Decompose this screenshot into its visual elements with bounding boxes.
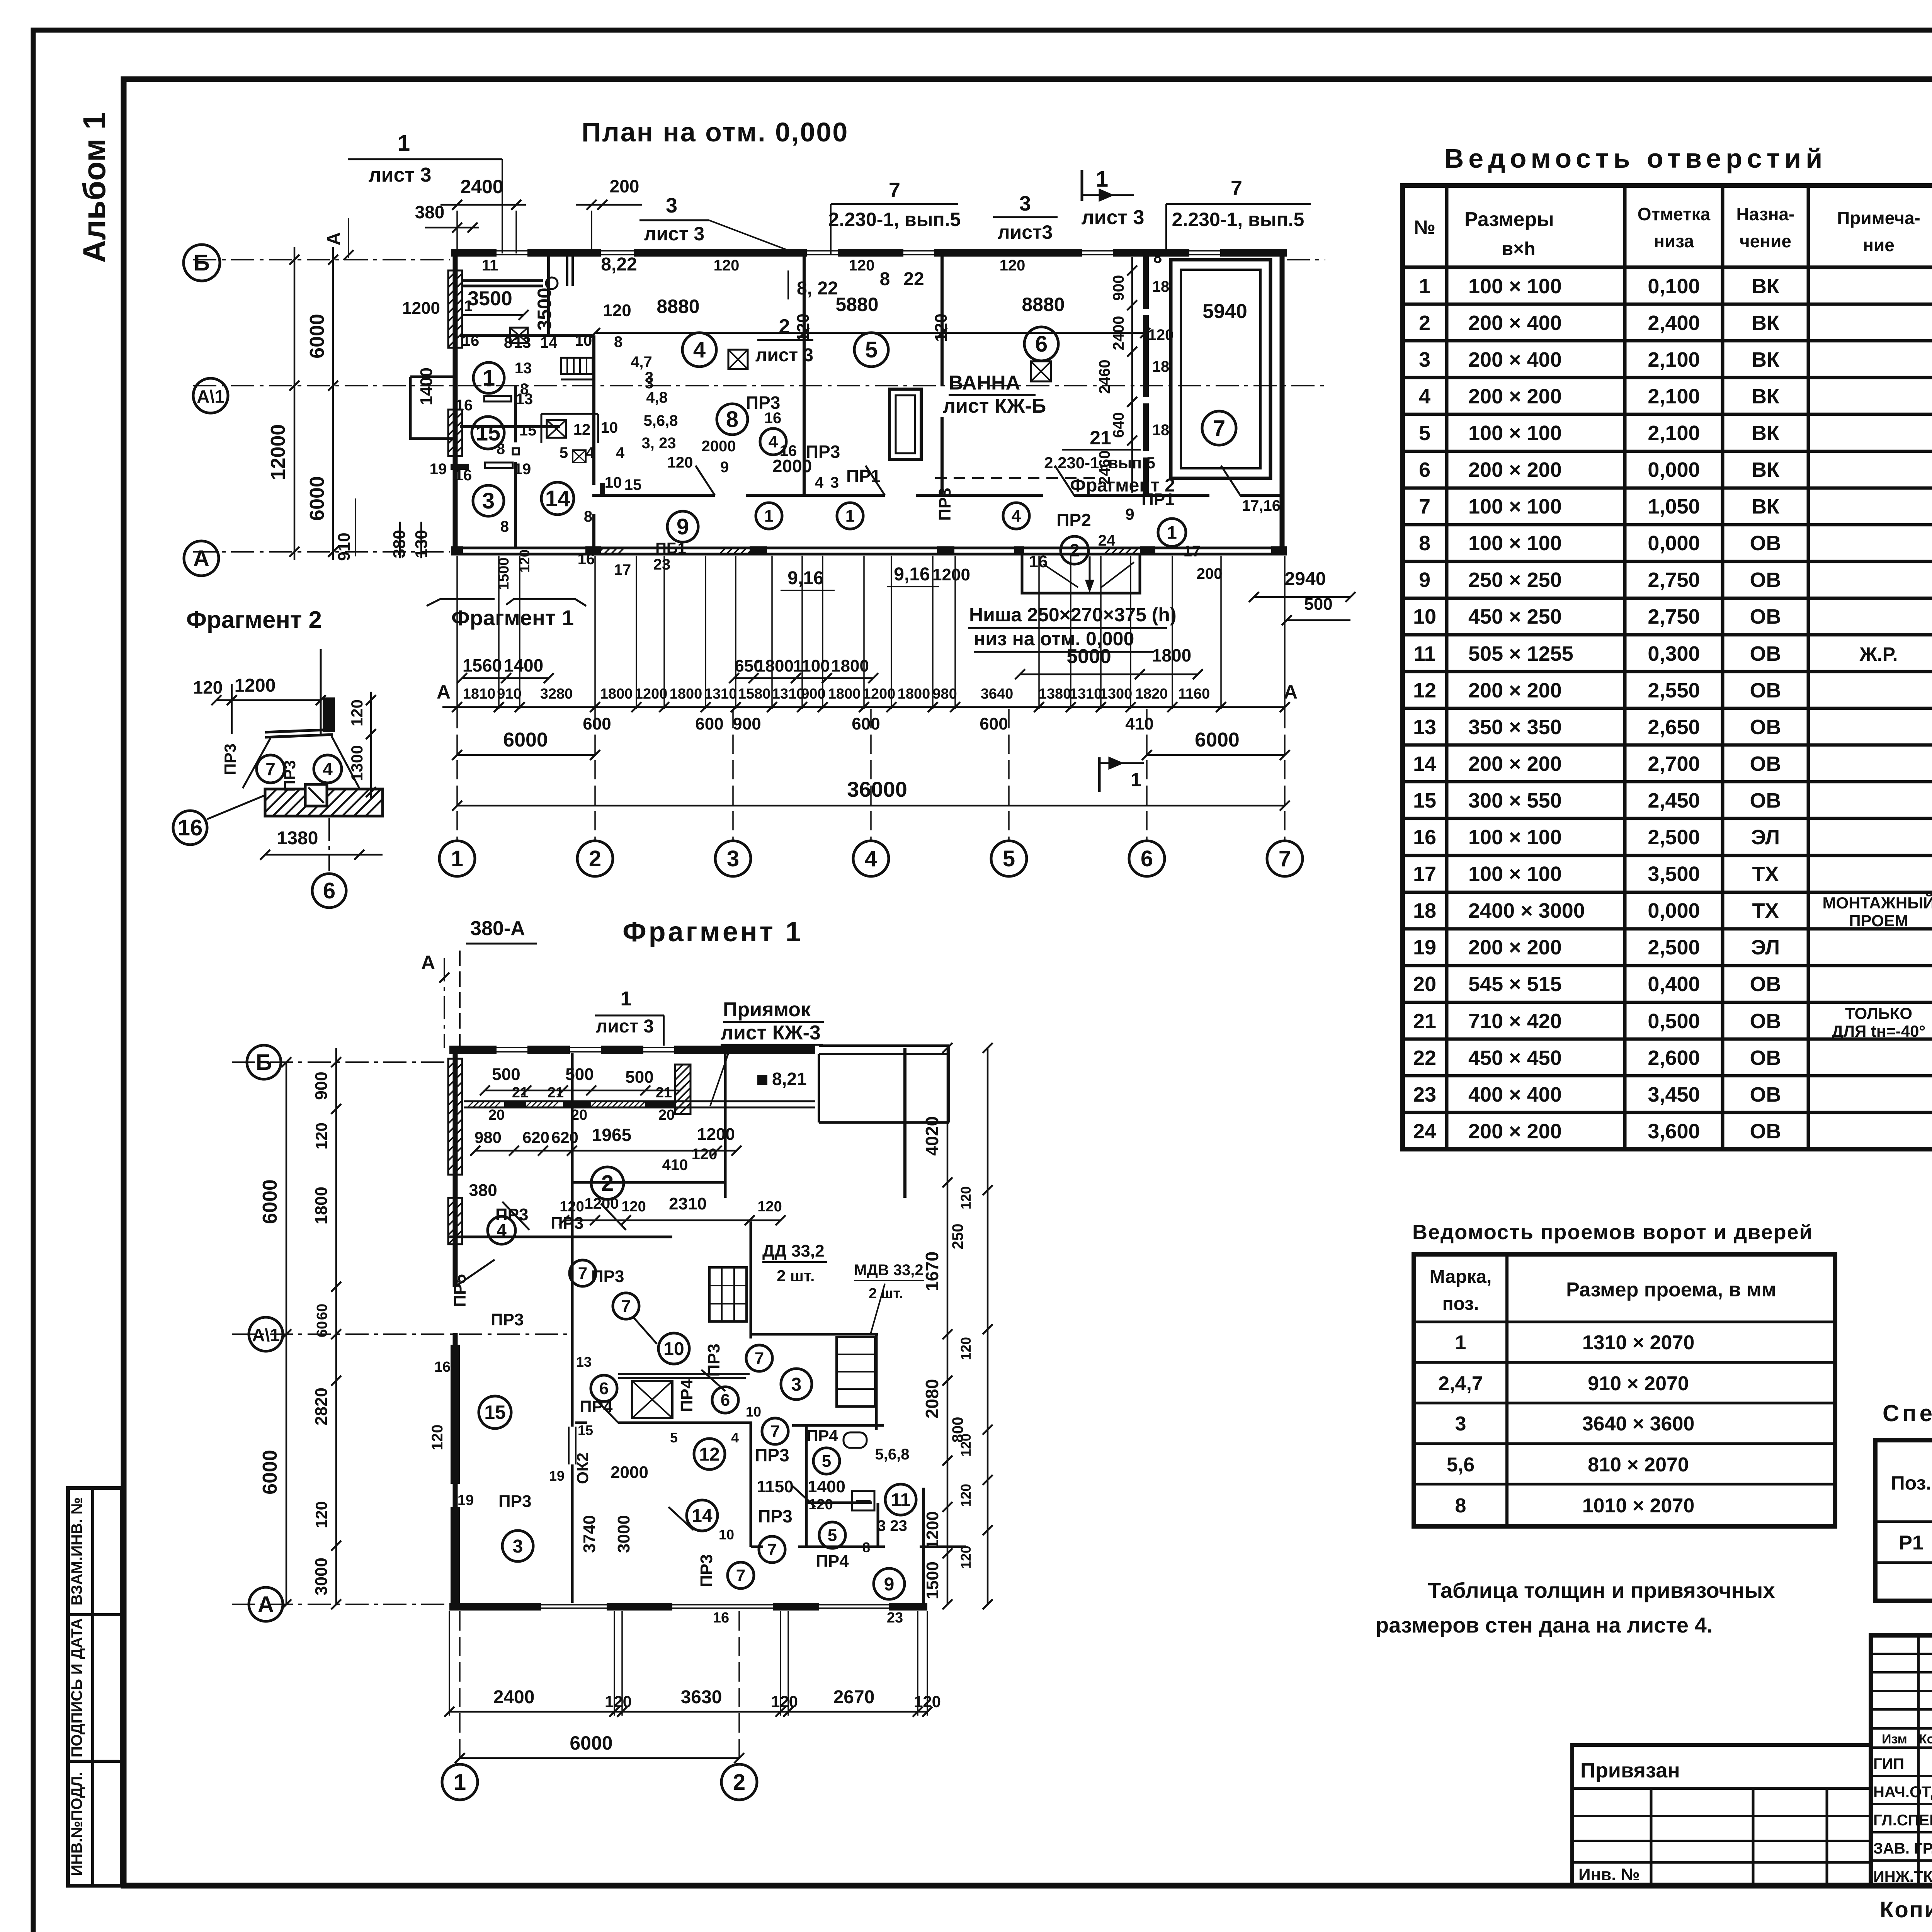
svg-text:410: 410 — [662, 1156, 688, 1173]
svg-text:ТХ: ТХ — [1752, 899, 1779, 922]
svg-text:1800: 1800 — [312, 1187, 331, 1225]
overall 36000 dim row — [457, 805, 1285, 807]
room 14 circle — [541, 482, 574, 515]
svg-text:5880: 5880 — [835, 294, 878, 315]
svg-text:1: 1 — [454, 1770, 466, 1795]
entry porch left — [410, 377, 455, 439]
svg-text:3740: 3740 — [580, 1515, 599, 1553]
svg-text:100 × 100: 100 × 100 — [1468, 826, 1562, 849]
svg-text:ОВ: ОВ — [1750, 1083, 1781, 1106]
svg-text:ВАННА: ВАННА — [949, 372, 1020, 394]
svg-text:6000: 6000 — [570, 1732, 612, 1754]
svg-text:1150: 1150 — [757, 1477, 793, 1496]
frag1 room circles cluster — [488, 1216, 515, 1244]
svg-text:1200: 1200 — [863, 686, 896, 702]
svg-text:ИНВ.№ПОДЛ.: ИНВ.№ПОДЛ. — [68, 1772, 85, 1876]
svg-text:120: 120 — [621, 1199, 646, 1215]
svg-text:120: 120 — [692, 1146, 718, 1163]
small room circle 2b — [1061, 536, 1088, 564]
svg-text:Ж.Р.: Ж.Р. — [1859, 643, 1898, 665]
svg-text:640: 640 — [1110, 412, 1127, 438]
svg-text:17: 17 — [1413, 862, 1436, 886]
svg-text:1: 1 — [451, 846, 463, 871]
svg-text:15: 15 — [578, 1422, 593, 1438]
svg-text:14: 14 — [540, 334, 558, 351]
frag1 pier 8,21 — [757, 1075, 767, 1085]
frag1 left axis circles — [232, 1061, 449, 1063]
left zone partition v1 — [547, 255, 550, 335]
svg-text:500: 500 — [625, 1068, 653, 1087]
bottom wall piers — [451, 546, 463, 555]
svg-text:120: 120 — [667, 454, 693, 471]
svg-text:9: 9 — [677, 514, 689, 539]
svg-text:11: 11 — [482, 257, 498, 274]
small room circle 4c — [1003, 503, 1029, 529]
svg-text:1: 1 — [845, 507, 855, 526]
svg-text:ние: ние — [1863, 235, 1895, 255]
svg-text:3640: 3640 — [981, 686, 1014, 702]
svg-text:размеров стен дана на листе 4.: размеров стен дана на листе 4. — [1376, 1613, 1713, 1637]
svg-text:8880: 8880 — [1022, 294, 1065, 315]
svg-text:ПР2: ПР2 — [1056, 510, 1091, 530]
svg-text:2,750: 2,750 — [1648, 605, 1700, 628]
svg-text:14: 14 — [1413, 752, 1436, 776]
svg-text:А: А — [258, 1592, 274, 1617]
svg-text:8: 8 — [880, 269, 890, 289]
frag1 top dims 500s — [485, 1090, 680, 1092]
svg-text:23: 23 — [1413, 1083, 1436, 1106]
svg-text:Ведомость отверстий: Ведомость отверстий — [1444, 143, 1827, 173]
svg-text:3: 3 — [1455, 1413, 1466, 1435]
svg-text:15: 15 — [624, 476, 642, 493]
frag1 wall left vertical with OK2 window — [571, 1237, 574, 1427]
svg-text:2: 2 — [779, 315, 790, 338]
svg-text:ПР3: ПР3 — [221, 743, 239, 775]
svg-text:10: 10 — [575, 332, 592, 349]
svg-text:2,500: 2,500 — [1648, 826, 1700, 849]
svg-text:А: А — [1284, 681, 1298, 703]
svg-text:7: 7 — [755, 1349, 764, 1368]
left margin stamp boxes — [68, 1488, 122, 1886]
svg-text:350 × 350: 350 × 350 — [1468, 716, 1562, 739]
vent wall stub 11 — [462, 279, 543, 282]
svg-text:900: 900 — [1110, 275, 1127, 301]
svg-text:5,6,8: 5,6,8 — [644, 412, 678, 429]
svg-text:13: 13 — [514, 334, 531, 351]
room 9 circle — [667, 511, 698, 542]
frag2 wall corner — [265, 730, 333, 732]
svg-text:3640 × 3600: 3640 × 3600 — [1582, 1413, 1695, 1435]
partition room6|7 wall band — [1143, 257, 1149, 496]
svg-text:0,000: 0,000 — [1648, 458, 1700, 481]
axis circle A1 left — [193, 378, 228, 413]
svg-text:8: 8 — [504, 334, 512, 351]
room 7 circle — [1202, 411, 1236, 445]
svg-text:6000: 6000 — [306, 314, 328, 359]
svg-text:13: 13 — [515, 360, 532, 377]
svg-text:15: 15 — [1413, 789, 1436, 812]
svg-text:лист 3: лист 3 — [644, 223, 705, 245]
svg-text:ПРОЕМ: ПРОЕМ — [1849, 912, 1908, 930]
svg-text:1800: 1800 — [670, 686, 702, 702]
svg-text:1: 1 — [1455, 1332, 1466, 1354]
svg-text:600: 600 — [695, 714, 723, 733]
svg-text:10: 10 — [1413, 605, 1436, 628]
svg-text:100 × 100: 100 × 100 — [1468, 862, 1562, 886]
svg-text:7: 7 — [889, 179, 900, 202]
svg-text:ТОЛЬКО: ТОЛЬКО — [1845, 1004, 1912, 1022]
svg-text:500: 500 — [1304, 595, 1332, 614]
svg-text:120: 120 — [932, 313, 951, 342]
svg-text:1810: 1810 — [463, 686, 496, 702]
svg-text:ПР3: ПР3 — [935, 488, 954, 520]
svg-text:3,500: 3,500 — [1648, 862, 1700, 886]
frag1 door leaves — [502, 1202, 529, 1230]
svg-text:120: 120 — [808, 1497, 833, 1513]
svg-text:Фрагмент 1: Фрагмент 1 — [451, 605, 574, 630]
svg-text:6: 6 — [1419, 458, 1430, 481]
svg-text:200 × 200: 200 × 200 — [1468, 752, 1562, 776]
small x symbol — [573, 450, 586, 463]
svg-text:810 × 2070: 810 × 2070 — [1588, 1454, 1689, 1476]
svg-text:10: 10 — [719, 1527, 734, 1543]
svg-text:ВК: ВК — [1752, 385, 1780, 408]
stair comb — [561, 358, 593, 374]
svg-text:500: 500 — [492, 1065, 520, 1084]
vedomost proyomov grid — [1414, 1254, 1835, 1526]
svg-text:9: 9 — [1419, 568, 1430, 592]
svg-text:22: 22 — [1413, 1046, 1436, 1070]
svg-text:Примеча-: Примеча- — [1837, 208, 1920, 228]
svg-text:14: 14 — [692, 1506, 713, 1526]
svg-text:2 шт.: 2 шт. — [777, 1267, 815, 1285]
grid leader lines to circles — [456, 709, 458, 842]
grid circle 1 — [439, 841, 475, 876]
svg-text:10: 10 — [663, 1339, 684, 1359]
svg-text:450 × 450: 450 × 450 — [1468, 1046, 1562, 1070]
svg-text:ПР3: ПР3 — [281, 760, 299, 792]
svg-text:24: 24 — [1098, 532, 1116, 549]
svg-text:3 23: 3 23 — [877, 1517, 907, 1534]
svg-text:2,4,7: 2,4,7 — [1438, 1372, 1483, 1395]
svg-text:2000: 2000 — [611, 1463, 648, 1482]
frag1 interior partitions — [571, 1053, 574, 1237]
svg-text:ГИП: ГИП — [1873, 1755, 1904, 1772]
svg-text:2460: 2460 — [1096, 360, 1113, 394]
svg-text:8: 8 — [500, 518, 509, 535]
svg-text:Б: Б — [256, 1050, 272, 1075]
svg-text:4: 4 — [731, 1430, 739, 1446]
svg-text:Фрагмент 2: Фрагмент 2 — [1070, 475, 1175, 496]
svg-text:ПР1: ПР1 — [846, 466, 881, 486]
svg-text:1500: 1500 — [496, 558, 512, 590]
svg-text:120: 120 — [193, 677, 223, 697]
svg-text:16: 16 — [578, 551, 595, 568]
svg-text:250 × 250: 250 × 250 — [1468, 568, 1562, 592]
svg-text:8: 8 — [584, 508, 592, 525]
svg-text:2,400: 2,400 — [1648, 311, 1700, 335]
svg-text:3, 23: 3, 23 — [642, 435, 676, 452]
svg-text:ОВ: ОВ — [1750, 568, 1781, 592]
vedomost otverstiy table grid — [1403, 185, 1932, 1149]
svg-text:100 × 100: 100 × 100 — [1468, 275, 1562, 298]
dim row 5000 1800 — [1020, 673, 1198, 675]
bottom wall sill hatches — [719, 547, 761, 555]
frag1 right dim line outer — [987, 1048, 989, 1604]
svg-text:Таблица толщин и привязочных: Таблица толщин и привязочных — [1428, 1578, 1775, 1602]
left vertical dim line 12000 — [294, 247, 296, 560]
svg-text:8,21: 8,21 — [772, 1069, 807, 1089]
svg-text:Поз.: Поз. — [1891, 1472, 1932, 1494]
svg-text:2: 2 — [1419, 311, 1430, 335]
frag1 grid circle 1 — [459, 1611, 461, 1762]
svg-text:36000: 36000 — [847, 777, 907, 801]
svg-text:Фрагмент 1: Фрагмент 1 — [622, 917, 803, 947]
svg-text:18: 18 — [1152, 278, 1170, 295]
pier stub room15|3 — [451, 464, 469, 470]
svg-text:4: 4 — [1419, 385, 1430, 408]
svg-text:ОВ: ОВ — [1750, 1046, 1781, 1070]
main plan bottom wall — [451, 547, 1287, 549]
svg-text:Изм: Изм — [1882, 1732, 1907, 1747]
svg-text:5: 5 — [560, 444, 568, 461]
svg-text:7: 7 — [770, 1422, 780, 1441]
svg-text:120: 120 — [603, 301, 631, 320]
svg-text:380-А: 380-А — [470, 917, 525, 940]
dim 2940 500 right — [1254, 596, 1350, 598]
svg-text:4: 4 — [323, 759, 333, 779]
svg-text:ПБ1: ПБ1 — [655, 540, 686, 557]
svg-text:120: 120 — [958, 1186, 974, 1209]
witness lines below bottom wall — [456, 556, 458, 709]
svg-text:1560: 1560 — [463, 655, 502, 675]
svg-text:Размер проема, в мм: Размер проема, в мм — [1566, 1279, 1776, 1301]
svg-text:18: 18 — [1152, 358, 1170, 375]
svg-text:5,6: 5,6 — [1447, 1454, 1475, 1476]
svg-text:250: 250 — [949, 1224, 966, 1250]
svg-text:А: А — [193, 546, 209, 571]
svg-text:21: 21 — [1413, 1010, 1436, 1033]
svg-text:120: 120 — [958, 1546, 974, 1569]
frag2 leader 16 — [173, 811, 207, 845]
svg-text:12: 12 — [1413, 679, 1436, 702]
svg-text:7: 7 — [1231, 177, 1242, 200]
frag1 right partial walls — [903, 1048, 906, 1198]
svg-text:1300: 1300 — [348, 745, 366, 781]
pier below top wall — [566, 255, 568, 286]
svg-text:200 × 200: 200 × 200 — [1468, 679, 1562, 702]
svg-text:1800: 1800 — [831, 656, 869, 675]
svg-text:ОВ: ОВ — [1750, 752, 1781, 776]
svg-text:1400: 1400 — [808, 1477, 845, 1496]
svg-text:400 × 400: 400 × 400 — [1468, 1083, 1562, 1106]
svg-text:7: 7 — [1279, 846, 1291, 871]
svg-text:410: 410 — [1125, 714, 1153, 733]
svg-text:ОВ: ОВ — [1750, 716, 1781, 739]
svg-text:900: 900 — [312, 1071, 331, 1100]
frag1 equip x-box — [632, 1381, 672, 1418]
frag1 priyamok pit outline — [819, 1044, 949, 1047]
svg-text:ПР3: ПР3 — [758, 1506, 792, 1526]
room 3 circle — [473, 485, 504, 516]
svg-text:ПР3: ПР3 — [591, 1267, 624, 1286]
bath vanna — [889, 389, 921, 459]
svg-text:МДВ 33,2: МДВ 33,2 — [854, 1262, 923, 1279]
svg-text:ПР4: ПР4 — [580, 1397, 613, 1416]
svg-text:910: 910 — [497, 686, 521, 702]
svg-text:План на отм. 0,000: План на отм. 0,000 — [582, 117, 849, 147]
svg-text:Приямок: Приямок — [723, 998, 811, 1021]
svg-text:1: 1 — [398, 131, 410, 156]
entrance recess PR2 — [1022, 555, 1140, 593]
grid circle 6 — [1129, 841, 1165, 876]
frag2 door leaves — [243, 738, 270, 788]
svg-text:4,8: 4,8 — [646, 389, 668, 406]
svg-text:0,000: 0,000 — [1648, 532, 1700, 555]
corridor wall — [592, 494, 715, 497]
svg-text:5: 5 — [1003, 846, 1015, 871]
svg-text:лист3: лист3 — [998, 221, 1053, 243]
svg-text:200 × 400: 200 × 400 — [1468, 348, 1562, 371]
svg-text:лист 3: лист 3 — [596, 1016, 654, 1037]
svg-text:20: 20 — [658, 1107, 675, 1123]
svg-text:А\1: А\1 — [252, 1325, 280, 1345]
svg-text:120: 120 — [958, 1484, 974, 1507]
frag2 bottom hatched wall — [265, 789, 383, 816]
svg-text:0,300: 0,300 — [1648, 642, 1700, 665]
svg-text:1800: 1800 — [600, 686, 633, 702]
svg-text:ЭЛ: ЭЛ — [1751, 936, 1780, 959]
svg-text:1800: 1800 — [756, 656, 794, 675]
svg-text:ОК2: ОК2 — [573, 1452, 592, 1484]
svg-text:120: 120 — [348, 699, 366, 726]
svg-text:2,750: 2,750 — [1648, 568, 1700, 592]
svg-text:120: 120 — [1148, 327, 1174, 344]
svg-text:4: 4 — [1012, 507, 1021, 526]
svg-text:8,22: 8,22 — [601, 254, 637, 275]
svg-text:чение: чение — [1740, 231, 1791, 251]
svg-text:Фрагмент 2: Фрагмент 2 — [186, 607, 322, 633]
svg-text:3: 3 — [727, 846, 739, 871]
svg-text:А: А — [437, 681, 451, 703]
svg-text:8: 8 — [726, 407, 738, 432]
title block outline — [1871, 1635, 1932, 1886]
small room circle 1d — [1158, 519, 1186, 546]
svg-text:120: 120 — [757, 1199, 782, 1215]
svg-text:Ведомость проемов ворот и дв: Ведомость проемов ворот и дверей — [1412, 1221, 1813, 1244]
svg-text:9: 9 — [1125, 505, 1134, 523]
svg-text:1310 × 2070: 1310 × 2070 — [1582, 1332, 1695, 1354]
frag1 wall in wc — [806, 1502, 872, 1504]
svg-text:10: 10 — [605, 474, 622, 491]
svg-text:16: 16 — [434, 1359, 451, 1375]
left vertical dim line 6000x2 — [332, 247, 334, 560]
frag1 inner window wall row — [464, 1100, 815, 1102]
svg-text:15: 15 — [519, 422, 537, 439]
svg-text:1: 1 — [1131, 769, 1141, 791]
svg-text:18: 18 — [1413, 899, 1436, 922]
svg-text:505 × 1255: 505 × 1255 — [1468, 642, 1573, 665]
svg-text:600: 600 — [583, 714, 611, 733]
partition room5|6 — [940, 255, 944, 386]
svg-text:3: 3 — [830, 474, 839, 491]
svg-text:2,100: 2,100 — [1648, 422, 1700, 445]
svg-text:200 × 200: 200 × 200 — [1468, 385, 1562, 408]
svg-text:17: 17 — [614, 561, 631, 578]
svg-text:3: 3 — [482, 488, 495, 514]
svg-text:13: 13 — [576, 1354, 592, 1370]
svg-text:1670: 1670 — [922, 1252, 942, 1291]
svg-text:МОНТАЖНЫЙ: МОНТАЖНЫЙ — [1823, 893, 1932, 912]
svg-text:9: 9 — [884, 1574, 895, 1595]
svg-text:ЭЛ: ЭЛ — [1751, 826, 1780, 849]
svg-text:ВК: ВК — [1752, 458, 1780, 481]
axis B dash-dot line — [193, 259, 450, 260]
svg-text:1580: 1580 — [738, 686, 771, 702]
svg-text:20: 20 — [488, 1107, 505, 1123]
svg-text:120: 120 — [914, 1692, 941, 1711]
frag1 counter room12 — [618, 1373, 750, 1375]
svg-text:500: 500 — [565, 1065, 594, 1084]
left zone partition v2 — [514, 386, 517, 442]
svg-text:ПР3: ПР3 — [704, 1344, 723, 1376]
svg-text:2 шт.: 2 шт. — [869, 1286, 903, 1302]
frag1 room2 circle — [591, 1167, 624, 1199]
frag1 left wall — [453, 1048, 458, 1607]
svg-text:19: 19 — [1413, 936, 1436, 959]
svg-text:1200: 1200 — [932, 565, 970, 584]
svg-text:1: 1 — [1419, 275, 1430, 298]
svg-text:5: 5 — [670, 1430, 678, 1446]
svg-text:ТХ: ТХ — [1752, 862, 1779, 886]
svg-text:1160: 1160 — [1178, 686, 1210, 702]
frag1 wc fixtures — [844, 1432, 867, 1448]
svg-text:12: 12 — [573, 421, 591, 438]
svg-text:ПР4: ПР4 — [677, 1379, 696, 1412]
svg-text:6: 6 — [1141, 846, 1153, 871]
svg-text:ПР3: ПР3 — [491, 1310, 524, 1329]
svg-text:1: 1 — [483, 366, 495, 391]
svg-text:ОВ: ОВ — [1750, 789, 1781, 812]
svg-text:16: 16 — [1413, 826, 1436, 849]
equipment table — [541, 413, 598, 415]
svg-text:А: А — [421, 952, 435, 973]
room 5 circle — [854, 333, 888, 367]
equipment x-box room6 — [1031, 361, 1051, 381]
svg-text:600: 600 — [852, 714, 880, 733]
svg-text:21: 21 — [656, 1085, 672, 1101]
svg-text:9: 9 — [720, 459, 729, 476]
svg-text:16: 16 — [462, 332, 480, 349]
svg-text:16: 16 — [780, 442, 797, 459]
svg-text:3: 3 — [1019, 192, 1031, 215]
svg-text:3,450: 3,450 — [1648, 1083, 1700, 1106]
grid circle 3 — [715, 841, 751, 876]
svg-text:910: 910 — [335, 532, 354, 561]
svg-text:7: 7 — [578, 1264, 587, 1283]
svg-text:120: 120 — [560, 1199, 584, 1215]
svg-text:5: 5 — [828, 1526, 837, 1545]
grid circle 5 — [991, 841, 1027, 876]
left wall hatch piers — [448, 270, 462, 348]
equipment x-box room14 — [510, 328, 528, 343]
svg-text:380: 380 — [469, 1181, 497, 1200]
svg-text:лист КЖ-3: лист КЖ-3 — [721, 1022, 821, 1044]
svg-text:0,000: 0,000 — [1648, 899, 1700, 922]
svg-text:7: 7 — [767, 1540, 777, 1559]
pier 10 room14 — [600, 483, 605, 495]
svg-text:8: 8 — [862, 1539, 870, 1555]
